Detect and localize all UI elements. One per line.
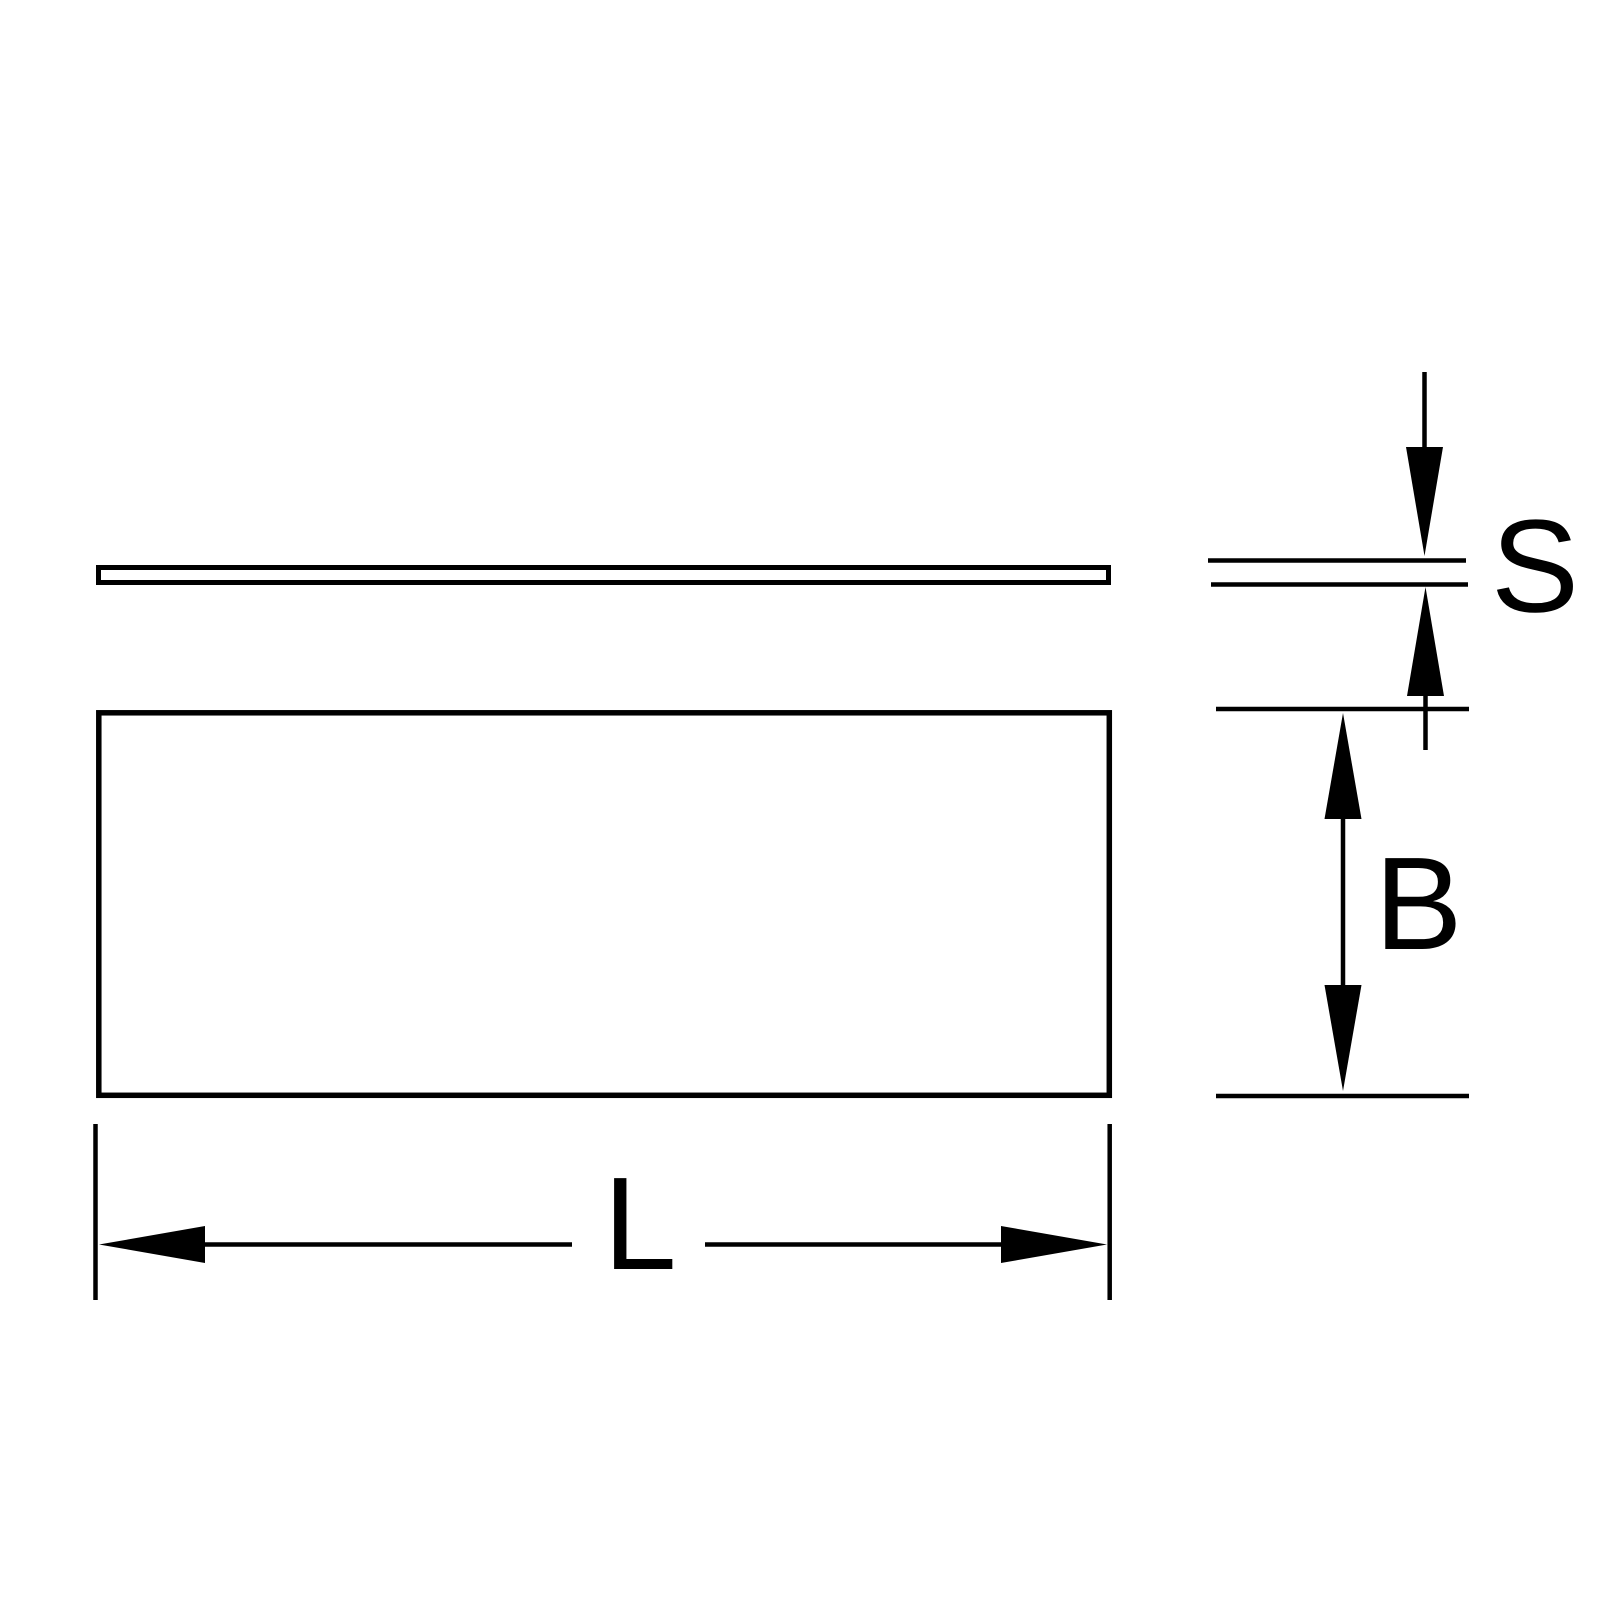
plate front view rectangle [99,713,1110,1096]
dimension line L right segment [705,1242,1005,1247]
svg-text:B: B [1374,830,1462,977]
extension line B bottom [1216,1094,1469,1099]
svg-text:S: S [1491,493,1579,640]
dimension line L left segment [200,1242,572,1247]
extension line B top [1216,707,1469,712]
svg-text:L: L [603,1150,676,1297]
plate side view (thin bar) [99,568,1109,583]
dimension arrow S bottom (pointing up) [1423,680,1428,750]
arrowhead L left [99,1226,205,1263]
dimension line B (double arrow) [1341,800,1346,1000]
arrowhead L right [1001,1226,1107,1263]
extension line L left [93,1124,98,1300]
extension line S lower [1211,582,1468,587]
dimension arrow S top (pointing down) [1422,372,1427,460]
extension line L right [1107,1124,1112,1300]
extension line S upper [1208,558,1466,563]
